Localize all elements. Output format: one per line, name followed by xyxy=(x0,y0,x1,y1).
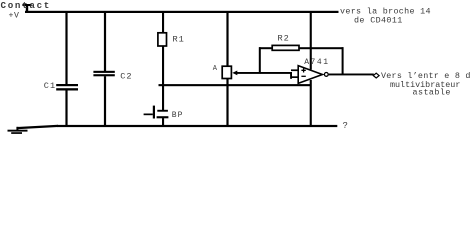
wire op-amp V+ from rail xyxy=(310,12,312,70)
op-amp plus sign xyxy=(301,68,305,72)
wire R2 right xyxy=(299,47,343,49)
ground bar 3 xyxy=(11,132,22,134)
wire output xyxy=(329,74,374,76)
svg-text:A: A xyxy=(213,65,218,73)
svg-text:de CD4011: de CD4011 xyxy=(354,15,403,25)
wire wiper xyxy=(237,72,260,74)
wire node to op-amp pin4 column xyxy=(159,84,312,86)
wire feedback down xyxy=(342,47,344,74)
wire R2 left xyxy=(259,47,272,49)
wire wiper to op-amp xyxy=(260,72,292,74)
potentiometer P xyxy=(222,66,231,78)
push button BP xyxy=(157,110,168,112)
svg-text:?: ? xyxy=(343,121,348,131)
resistor R2 xyxy=(272,45,299,50)
output node circle xyxy=(324,73,328,77)
contact terminal tick xyxy=(26,5,28,12)
svg-text:BP: BP xyxy=(172,111,184,120)
svg-text:C2: C2 xyxy=(120,72,132,82)
svg-text:R1: R1 xyxy=(173,34,185,44)
wiper arrow xyxy=(232,71,237,76)
svg-text:A741: A741 xyxy=(304,58,329,67)
wire C2 bottom xyxy=(104,76,106,126)
bottom rail 0V xyxy=(57,125,337,127)
wire R1 to BP xyxy=(162,46,164,110)
wire R1 top xyxy=(162,12,164,34)
op-amp input stub pin 2 xyxy=(291,76,299,78)
svg-text:Contact: Contact xyxy=(1,0,52,11)
wire C2 top xyxy=(104,12,106,71)
node junction wire R2 left down xyxy=(259,47,261,73)
wire BP bottom xyxy=(162,118,164,126)
op-amp minus sign xyxy=(301,75,305,77)
wire pot bottom xyxy=(226,79,228,126)
svg-text:+V: +V xyxy=(9,12,20,21)
output arrow diamond xyxy=(373,73,379,78)
wire op-amp V- to rail xyxy=(310,80,312,126)
ground bar 2 xyxy=(8,130,28,132)
wire C1 bottom xyxy=(65,90,67,125)
capacitor C1 xyxy=(56,84,78,86)
svg-text:astable: astable xyxy=(413,88,451,98)
svg-text:C1: C1 xyxy=(44,81,56,91)
resistor R1 xyxy=(158,33,167,46)
wire jog into inverting input xyxy=(290,72,292,79)
op-amp U1 triangle xyxy=(298,66,322,84)
op-amp input stub pin 3 xyxy=(291,69,299,71)
capacitor C2 xyxy=(93,71,114,73)
wire C1 top xyxy=(65,12,67,84)
wire pot top xyxy=(226,12,228,67)
ground step xyxy=(16,127,18,131)
svg-text:R2: R2 xyxy=(278,34,290,44)
top rail +V xyxy=(25,11,339,13)
